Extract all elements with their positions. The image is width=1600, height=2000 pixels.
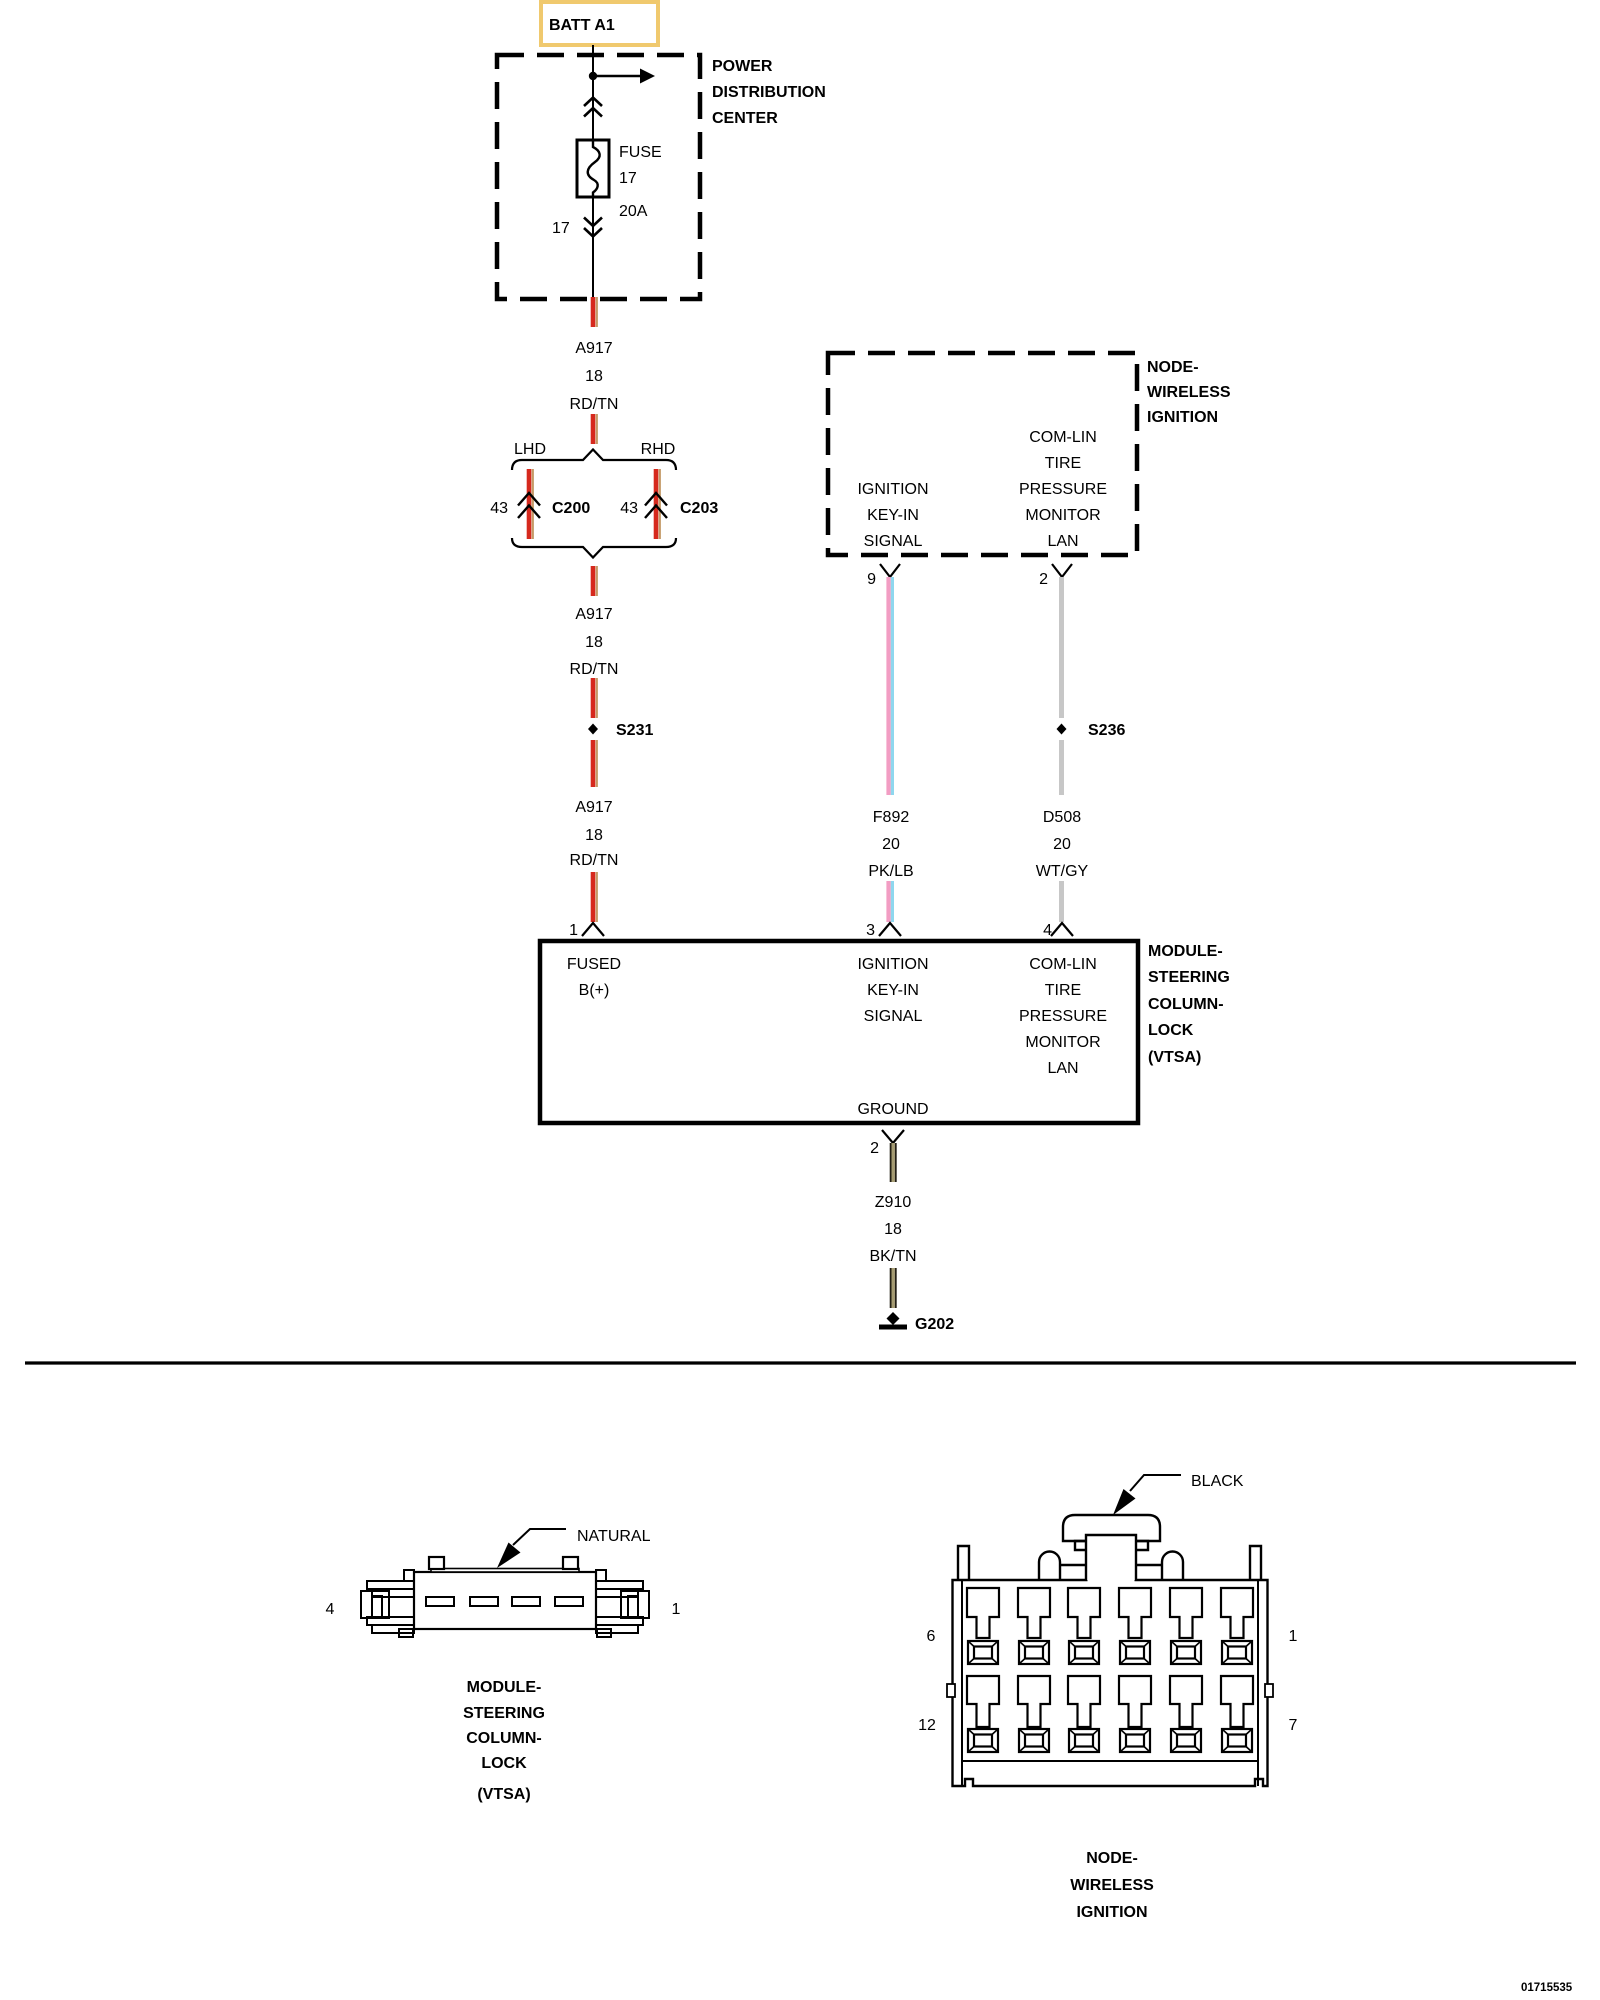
svg-text:12: 12 [918, 1717, 936, 1734]
svg-text:BATT A1: BATT A1 [549, 17, 615, 34]
svg-text:F892: F892 [873, 809, 910, 826]
module pin 4 [1043, 922, 1073, 939]
svg-text:BLACK: BLACK [1191, 1473, 1244, 1490]
connector C203 chevrons [645, 493, 667, 518]
svg-text:STEERING: STEERING [1148, 969, 1230, 986]
svg-text:43: 43 [620, 500, 638, 517]
svg-text:S231: S231 [616, 722, 653, 739]
wire D508 segment 3 (white/gray) [1059, 881, 1064, 922]
svg-text:LOCK: LOCK [481, 1755, 527, 1772]
internal connector chevrons (up) above fuse [584, 98, 602, 117]
svg-text:LHD: LHD [514, 441, 546, 458]
svg-text:2: 2 [870, 1140, 879, 1157]
svg-text:NATURAL: NATURAL [577, 1528, 651, 1545]
power distribution center label [712, 58, 826, 127]
fuse 17 symbol [577, 140, 609, 198]
label Z910 18 BK/TN [869, 1194, 916, 1265]
svg-text:TIRE: TIRE [1045, 455, 1081, 472]
right latch cluster [596, 1570, 606, 1581]
svg-text:1: 1 [1289, 1628, 1298, 1645]
svg-text:MONITOR: MONITOR [1025, 1034, 1100, 1051]
svg-text:6: 6 [927, 1628, 936, 1645]
left latch cluster [404, 1570, 414, 1581]
svg-text:RHD: RHD [641, 441, 676, 458]
inner walls [961, 1580, 963, 1786]
svg-text:Z910: Z910 [875, 1194, 912, 1211]
svg-text:FUSE: FUSE [619, 144, 662, 161]
node connector terminals [967, 1588, 1253, 1752]
svg-text:DISTRIBUTION: DISTRIBUTION [712, 84, 826, 101]
svg-text:G202: G202 [915, 1316, 954, 1333]
label D508 20 WT/GY [1036, 809, 1089, 880]
power distribution center dashed box [497, 55, 700, 299]
connector face view MODULE-STEERING COLUMN-LOCK (natural) [414, 1557, 596, 1629]
svg-text:RD/TN: RD/TN [570, 396, 619, 413]
module pin 3 [866, 922, 901, 939]
svg-text:43: 43 [490, 500, 508, 517]
svg-text:BK/TN: BK/TN [869, 1248, 916, 1265]
top plate [431, 1569, 579, 1573]
svg-text:KEY-IN: KEY-IN [867, 507, 919, 524]
svg-text:NODE-: NODE- [1147, 359, 1199, 376]
wire A917 segment 4 (red/tan) [593, 678, 597, 718]
svg-text:9: 9 [867, 571, 876, 588]
module name label [1148, 943, 1230, 1066]
node pin 2 [1039, 564, 1072, 588]
module ground pin 2 [870, 1130, 904, 1157]
wire RHD branch (red/tan) [656, 469, 660, 539]
svg-text:GROUND: GROUND [857, 1101, 928, 1118]
svg-text:STEERING: STEERING [463, 1705, 545, 1722]
wire A917 segment 2 (red/tan) [593, 414, 597, 444]
svg-text:1: 1 [672, 1601, 681, 1618]
svg-text:WIRELESS: WIRELESS [1070, 1877, 1154, 1894]
module pin 1 [569, 922, 604, 939]
svg-text:17: 17 [552, 220, 570, 237]
node internal labels [857, 429, 1107, 550]
svg-text:7: 7 [1289, 1717, 1298, 1734]
svg-text:CENTER: CENTER [712, 110, 778, 127]
svg-text:LAN: LAN [1047, 1060, 1078, 1077]
label F892 20 PK/LB [868, 809, 913, 880]
wire A917 segment 1 (red/tan) [593, 297, 597, 327]
wire Z910 segment 1 (black/tan) [891, 1143, 896, 1182]
svg-text:B(+): B(+) [579, 982, 610, 999]
connector C200 labels [490, 500, 590, 517]
svg-text:IGNITION: IGNITION [857, 956, 928, 973]
svg-text:KEY-IN: KEY-IN [867, 982, 919, 999]
tab shoulders [1075, 1541, 1086, 1550]
svg-text:MODULE-: MODULE- [467, 1679, 542, 1696]
svg-text:20: 20 [1053, 836, 1071, 853]
connector C200 chevrons [518, 493, 540, 518]
node wireless ignition dashed box [828, 353, 1137, 555]
svg-text:18: 18 [585, 634, 603, 651]
wire D508 segment 1 (white/gray) [1059, 577, 1064, 718]
junction node dot [589, 72, 597, 80]
svg-text:SIGNAL: SIGNAL [864, 533, 923, 550]
svg-text:A917: A917 [575, 606, 612, 623]
svg-text:A917: A917 [575, 799, 612, 816]
svg-text:WT/GY: WT/GY [1036, 863, 1089, 880]
svg-text:C200: C200 [552, 500, 590, 517]
svg-text:4: 4 [326, 1601, 335, 1618]
svg-text:WIRELESS: WIRELESS [1147, 384, 1231, 401]
svg-text:COLUMN-: COLUMN- [1148, 996, 1224, 1013]
svg-text:IGNITION: IGNITION [1147, 409, 1218, 426]
svg-text:COM-LIN: COM-LIN [1029, 956, 1097, 973]
svg-text:IGNITION: IGNITION [1076, 1904, 1147, 1921]
svg-text:COM-LIN: COM-LIN [1029, 429, 1097, 446]
wire A917 segment 5 (red/tan) [593, 740, 597, 787]
tab stem [1086, 1535, 1136, 1580]
svg-text:18: 18 [884, 1221, 902, 1238]
svg-text:RD/TN: RD/TN [570, 852, 619, 869]
svg-text:PK/LB: PK/LB [868, 863, 913, 880]
BLACK label with leader arrow [1113, 1473, 1244, 1515]
inner cavity bottom [962, 1760, 1258, 1762]
separator line [25, 1361, 1576, 1364]
wire LHD branch (red/tan) [529, 469, 533, 539]
svg-text:IGNITION: IGNITION [857, 481, 928, 498]
svg-text:COLUMN-: COLUMN- [466, 1730, 542, 1747]
svg-text:NODE-: NODE- [1086, 1850, 1138, 1867]
svg-text:S236: S236 [1088, 722, 1125, 739]
wire Z910 segment 2 (black/tan) [891, 1268, 896, 1308]
svg-text:18: 18 [585, 827, 603, 844]
brace split LHD/RHD [512, 441, 676, 470]
main body [953, 1580, 1268, 1786]
wire F892 segment 1 (pink/light blue) [889, 577, 893, 795]
svg-text:(VTSA): (VTSA) [477, 1786, 530, 1803]
svg-text:20A: 20A [619, 203, 648, 220]
top tabs [429, 1557, 444, 1569]
splice S231 [588, 722, 653, 739]
wire D508 segment 2 (white/gray) [1059, 740, 1064, 795]
lock tab [1063, 1515, 1160, 1541]
module steering column lock box [540, 941, 1138, 1123]
svg-text:SIGNAL: SIGNAL [864, 1008, 923, 1025]
svg-text:POWER: POWER [712, 58, 773, 75]
svg-text:PRESSURE: PRESSURE [1019, 481, 1107, 498]
caption module steering column lock [463, 1679, 545, 1803]
splice S236 [1057, 722, 1126, 739]
svg-text:01715535: 01715535 [1521, 1982, 1573, 1994]
ground G202 [879, 1312, 954, 1333]
label A917 18 RD/TN (lower) [570, 799, 619, 869]
svg-text:3: 3 [866, 922, 875, 939]
round bumps [1039, 1552, 1060, 1581]
svg-text:17: 17 [619, 170, 637, 187]
svg-text:A917: A917 [575, 340, 612, 357]
stem channel opening [1088, 1575, 1135, 1585]
arrow to other circuits [593, 69, 655, 84]
brace merge [512, 538, 676, 558]
battery feed callout box BATT A1 [541, 2, 658, 45]
svg-text:FUSED: FUSED [567, 956, 621, 973]
wire F892 segment 2 (pink/light blue) [889, 881, 893, 922]
svg-text:18: 18 [585, 368, 603, 385]
terminal slots [426, 1597, 454, 1606]
svg-text:2: 2 [1039, 571, 1048, 588]
svg-text:LAN: LAN [1047, 533, 1078, 550]
svg-text:C203: C203 [680, 500, 718, 517]
svg-text:4: 4 [1043, 922, 1052, 939]
svg-text:20: 20 [882, 836, 900, 853]
side notches [947, 1684, 955, 1697]
fuse value labels [619, 144, 662, 220]
wire A917 segment 6 (red/tan) [593, 872, 597, 922]
side ears [958, 1546, 969, 1580]
wire from BATT A1 into PDC [592, 45, 594, 140]
main body [414, 1572, 596, 1629]
caption node wireless ignition [1070, 1850, 1154, 1921]
svg-text:(VTSA): (VTSA) [1148, 1049, 1201, 1066]
wire fuse to pin 17 [592, 197, 594, 297]
node pin 9 [867, 564, 900, 588]
wire A917 segment 3 (red/tan) [593, 566, 597, 596]
svg-text:1: 1 [569, 922, 578, 939]
label A917 18 RD/TN (middle) [570, 606, 619, 678]
svg-text:PRESSURE: PRESSURE [1019, 1008, 1107, 1025]
pin 17 connector chevrons (down) [584, 218, 602, 237]
svg-text:D508: D508 [1043, 809, 1081, 826]
connector C203 labels [620, 500, 718, 517]
label A917 18 RD/TN (upper) [570, 340, 619, 413]
svg-text:LOCK: LOCK [1148, 1022, 1194, 1039]
node wireless ignition label [1147, 359, 1231, 426]
bump-to-stem links [1060, 1564, 1086, 1566]
svg-text:TIRE: TIRE [1045, 982, 1081, 999]
svg-text:MODULE-: MODULE- [1148, 943, 1223, 960]
svg-text:RD/TN: RD/TN [570, 661, 619, 678]
svg-text:MONITOR: MONITOR [1025, 507, 1100, 524]
NATURAL label with leader arrow [497, 1528, 651, 1568]
module internal labels [567, 956, 1107, 1118]
